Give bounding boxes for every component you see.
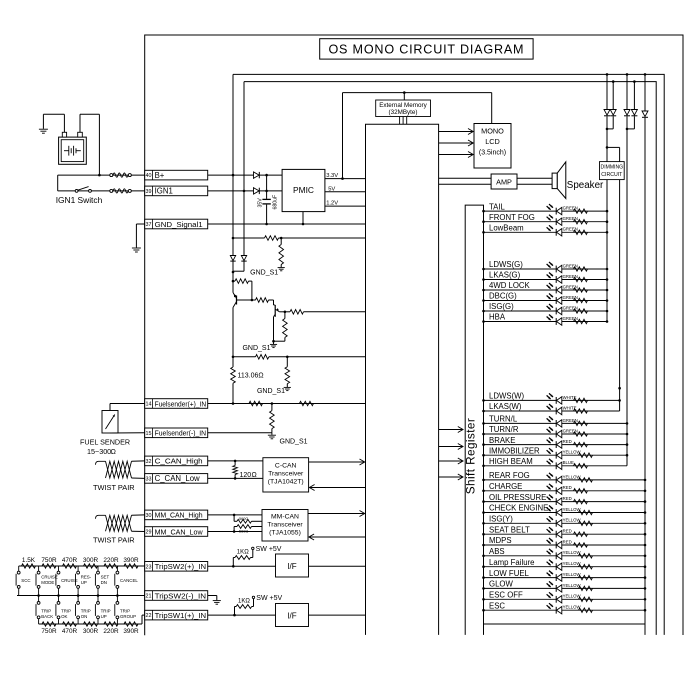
svg-text:SCC: SCC xyxy=(21,578,30,583)
svg-text:1.2V: 1.2V xyxy=(326,201,338,207)
svg-text:39: 39 xyxy=(146,189,152,195)
svg-text:YELLOW: YELLOW xyxy=(563,518,582,523)
svg-text:33: 33 xyxy=(146,476,152,482)
svg-text:TWIST PAIR: TWIST PAIR xyxy=(93,536,135,545)
svg-text:YELLOW: YELLOW xyxy=(563,561,582,566)
svg-text:B+: B+ xyxy=(155,171,165,180)
svg-text:REAR FOG: REAR FOG xyxy=(489,471,530,480)
svg-text:FRONT FOG: FRONT FOG xyxy=(489,213,535,222)
svg-text:LowBeam: LowBeam xyxy=(489,224,524,233)
svg-text:ESC: ESC xyxy=(489,601,505,610)
svg-text:AMP: AMP xyxy=(496,177,512,186)
svg-text:470R: 470R xyxy=(62,557,78,564)
svg-text:TRIP: TRIP xyxy=(81,609,91,614)
svg-text:390R: 390R xyxy=(123,557,139,564)
svg-text:TRIP: TRIP xyxy=(120,609,130,614)
svg-text:CANCEL: CANCEL xyxy=(120,578,138,583)
svg-text:300R: 300R xyxy=(83,628,99,635)
svg-text:TRIP: TRIP xyxy=(101,609,111,614)
svg-text:1.5K: 1.5K xyxy=(22,557,36,564)
svg-text:I/F: I/F xyxy=(287,611,296,620)
svg-text:560Ω: 560Ω xyxy=(239,517,248,521)
svg-text:TRIP: TRIP xyxy=(61,609,71,614)
svg-text:LDWS(G): LDWS(G) xyxy=(489,260,523,269)
svg-text:BRAKE: BRAKE xyxy=(489,436,515,445)
svg-text:23: 23 xyxy=(146,564,152,570)
svg-text:LDWS(W): LDWS(W) xyxy=(489,392,524,401)
svg-text:C-CAN: C-CAN xyxy=(275,462,297,469)
svg-text:LKAS(G): LKAS(G) xyxy=(489,271,521,280)
svg-text:IGN1 Switch: IGN1 Switch xyxy=(56,195,103,205)
svg-text:TripSW2(-)_IN: TripSW2(-)_IN xyxy=(155,591,207,600)
svg-text:YELLOW: YELLOW xyxy=(563,474,582,479)
svg-text:TAIL: TAIL xyxy=(489,202,506,211)
svg-text:GND_S1: GND_S1 xyxy=(242,345,270,352)
svg-text:IGN1: IGN1 xyxy=(155,187,173,196)
svg-text:RES-: RES- xyxy=(81,575,92,580)
svg-text:Transceiver: Transceiver xyxy=(267,522,303,529)
svg-text:CRUISE: CRUISE xyxy=(41,575,58,580)
svg-text:RED: RED xyxy=(563,439,572,444)
svg-text:Fuelsender(+)_IN: Fuelsender(+)_IN xyxy=(155,399,207,408)
svg-text:MODE: MODE xyxy=(41,580,54,585)
svg-text:BLUE: BLUE xyxy=(563,460,574,465)
svg-text:4WD LOCK: 4WD LOCK xyxy=(489,281,531,290)
svg-text:OS MONO CIRCUIT DIAGRAM: OS MONO CIRCUIT DIAGRAM xyxy=(328,42,524,56)
svg-text:37: 37 xyxy=(146,222,152,228)
svg-text:I/F: I/F xyxy=(287,562,296,571)
svg-text:ISG(Y): ISG(Y) xyxy=(489,515,513,524)
svg-text:C_CAN_High: C_CAN_High xyxy=(155,457,203,466)
svg-text:Ω: Ω xyxy=(245,598,250,604)
svg-text:LOW FUEL: LOW FUEL xyxy=(489,569,530,578)
svg-text:IMMOBILIZER: IMMOBILIZER xyxy=(489,446,540,455)
svg-text:YELLOW: YELLOW xyxy=(563,550,582,555)
svg-text:TURN/L: TURN/L xyxy=(489,415,518,424)
svg-text:15: 15 xyxy=(146,431,152,437)
svg-text:300R: 300R xyxy=(83,557,99,564)
svg-text:MONO: MONO xyxy=(481,127,504,136)
svg-text:Ω: Ω xyxy=(252,472,257,479)
svg-text:35V: 35V xyxy=(257,198,263,208)
svg-text:OIL PRESSURE: OIL PRESSURE xyxy=(489,493,546,502)
svg-text:Lamp Failure: Lamp Failure xyxy=(489,558,535,567)
svg-text:RED: RED xyxy=(563,496,572,501)
svg-text:22: 22 xyxy=(146,613,152,619)
svg-text:14: 14 xyxy=(146,402,152,408)
svg-text:15~300: 15~300 xyxy=(87,447,111,456)
svg-text:TWIST PAIR: TWIST PAIR xyxy=(93,483,135,492)
svg-text:TripSW2(+)_IN: TripSW2(+)_IN xyxy=(155,562,207,571)
svg-text:YELLOW: YELLOW xyxy=(563,572,582,577)
svg-text:PMIC: PMIC xyxy=(293,185,314,195)
svg-text:FUEL SENDER: FUEL SENDER xyxy=(80,438,130,447)
svg-text:SEAT BELT: SEAT BELT xyxy=(489,525,530,534)
svg-text:C_CAN_Low: C_CAN_Low xyxy=(155,474,200,483)
svg-text:DBC(G): DBC(G) xyxy=(489,292,517,301)
svg-text:LCD: LCD xyxy=(485,137,500,146)
svg-text:220R: 220R xyxy=(103,557,119,564)
svg-text:(TJA1042T): (TJA1042T) xyxy=(268,478,304,485)
svg-text:GLOW: GLOW xyxy=(489,580,513,589)
svg-text:Shift Register: Shift Register xyxy=(464,418,478,494)
svg-text:32: 32 xyxy=(146,459,152,465)
svg-text:(3.5inch): (3.5inch) xyxy=(479,150,506,157)
svg-text:YELLOW: YELLOW xyxy=(563,450,582,455)
svg-text:TRIP: TRIP xyxy=(41,609,51,614)
svg-text:470R: 470R xyxy=(62,628,78,635)
svg-text:21: 21 xyxy=(146,594,152,600)
svg-text:ESC OFF: ESC OFF xyxy=(489,591,523,600)
svg-text:MDPS: MDPS xyxy=(489,536,512,545)
svg-text:CHECK ENGINE: CHECK ENGINE xyxy=(489,504,548,513)
svg-text:Speaker: Speaker xyxy=(567,180,604,191)
svg-text:(TJA1055): (TJA1055) xyxy=(269,530,301,537)
svg-text:113.06: 113.06 xyxy=(238,373,259,380)
svg-text:1K: 1K xyxy=(238,598,245,604)
svg-text:DIMMING: DIMMING xyxy=(601,165,624,171)
svg-text:External Memory: External Memory xyxy=(379,102,427,109)
svg-text:(32MByte): (32MByte) xyxy=(388,109,417,116)
svg-text:1K: 1K xyxy=(237,549,244,555)
svg-text:YELLOW: YELLOW xyxy=(563,583,582,588)
svg-text:GND_S1: GND_S1 xyxy=(257,388,285,395)
svg-text:29: 29 xyxy=(146,530,152,536)
svg-text:40: 40 xyxy=(146,173,152,179)
svg-text:LKAS(W): LKAS(W) xyxy=(489,402,522,411)
svg-text:CIRCUIT: CIRCUIT xyxy=(601,172,622,178)
svg-text:Ω: Ω xyxy=(111,447,117,456)
svg-text:220R: 220R xyxy=(103,628,119,635)
svg-text:5V: 5V xyxy=(328,186,335,192)
svg-text:ABS: ABS xyxy=(489,547,505,556)
svg-text:GND_S1: GND_S1 xyxy=(280,439,308,446)
svg-text:OK: OK xyxy=(61,614,67,619)
svg-text:HIGH BEAM: HIGH BEAM xyxy=(489,457,533,466)
svg-text:750R: 750R xyxy=(41,628,57,635)
svg-text:HBA: HBA xyxy=(489,313,506,322)
svg-text:MM_CAN_High: MM_CAN_High xyxy=(155,511,203,520)
svg-text:MM_CAN_Low: MM_CAN_Low xyxy=(155,527,203,536)
svg-text:BACK: BACK xyxy=(41,614,53,619)
svg-text:ISG(G): ISG(G) xyxy=(489,302,514,311)
svg-text:UP: UP xyxy=(81,580,87,585)
svg-text:GND_Signal1: GND_Signal1 xyxy=(155,220,203,229)
svg-text:YELLOW: YELLOW xyxy=(563,507,582,512)
svg-text:Transceiver: Transceiver xyxy=(268,470,304,477)
svg-text:30: 30 xyxy=(146,513,152,519)
svg-text:560Ω: 560Ω xyxy=(239,530,248,534)
svg-text:GND_S1: GND_S1 xyxy=(250,270,278,277)
svg-text:YELLOW: YELLOW xyxy=(563,594,582,599)
svg-text:ON: ON xyxy=(81,614,88,619)
svg-text:RED: RED xyxy=(563,485,572,490)
svg-text:SW +5V: SW +5V xyxy=(256,546,282,553)
svg-text:GROUP: GROUP xyxy=(120,614,136,619)
svg-text:Ω: Ω xyxy=(258,373,263,380)
svg-text:TripSW1(+)_IN: TripSW1(+)_IN xyxy=(155,611,207,620)
svg-text:3.3V: 3.3V xyxy=(326,173,338,179)
svg-text:Ω: Ω xyxy=(244,549,249,555)
svg-text:MM-CAN: MM-CAN xyxy=(271,514,299,521)
svg-text:DN: DN xyxy=(101,580,107,585)
svg-text:CHARGE: CHARGE xyxy=(489,482,522,491)
svg-text:RED: RED xyxy=(563,539,572,544)
svg-text:680uF: 680uF xyxy=(272,195,278,210)
svg-text:Fuelsender(-)_IN: Fuelsender(-)_IN xyxy=(155,429,207,438)
svg-text:YELLOW: YELLOW xyxy=(563,605,582,610)
svg-text:UP: UP xyxy=(101,614,107,619)
svg-text:SET: SET xyxy=(101,575,110,580)
svg-text:TURN/R: TURN/R xyxy=(489,425,519,434)
svg-text:390R: 390R xyxy=(123,628,139,635)
svg-text:120: 120 xyxy=(240,472,252,479)
svg-text:RED: RED xyxy=(563,529,572,534)
svg-text:750R: 750R xyxy=(41,557,57,564)
svg-text:SW +5V: SW +5V xyxy=(256,595,282,602)
